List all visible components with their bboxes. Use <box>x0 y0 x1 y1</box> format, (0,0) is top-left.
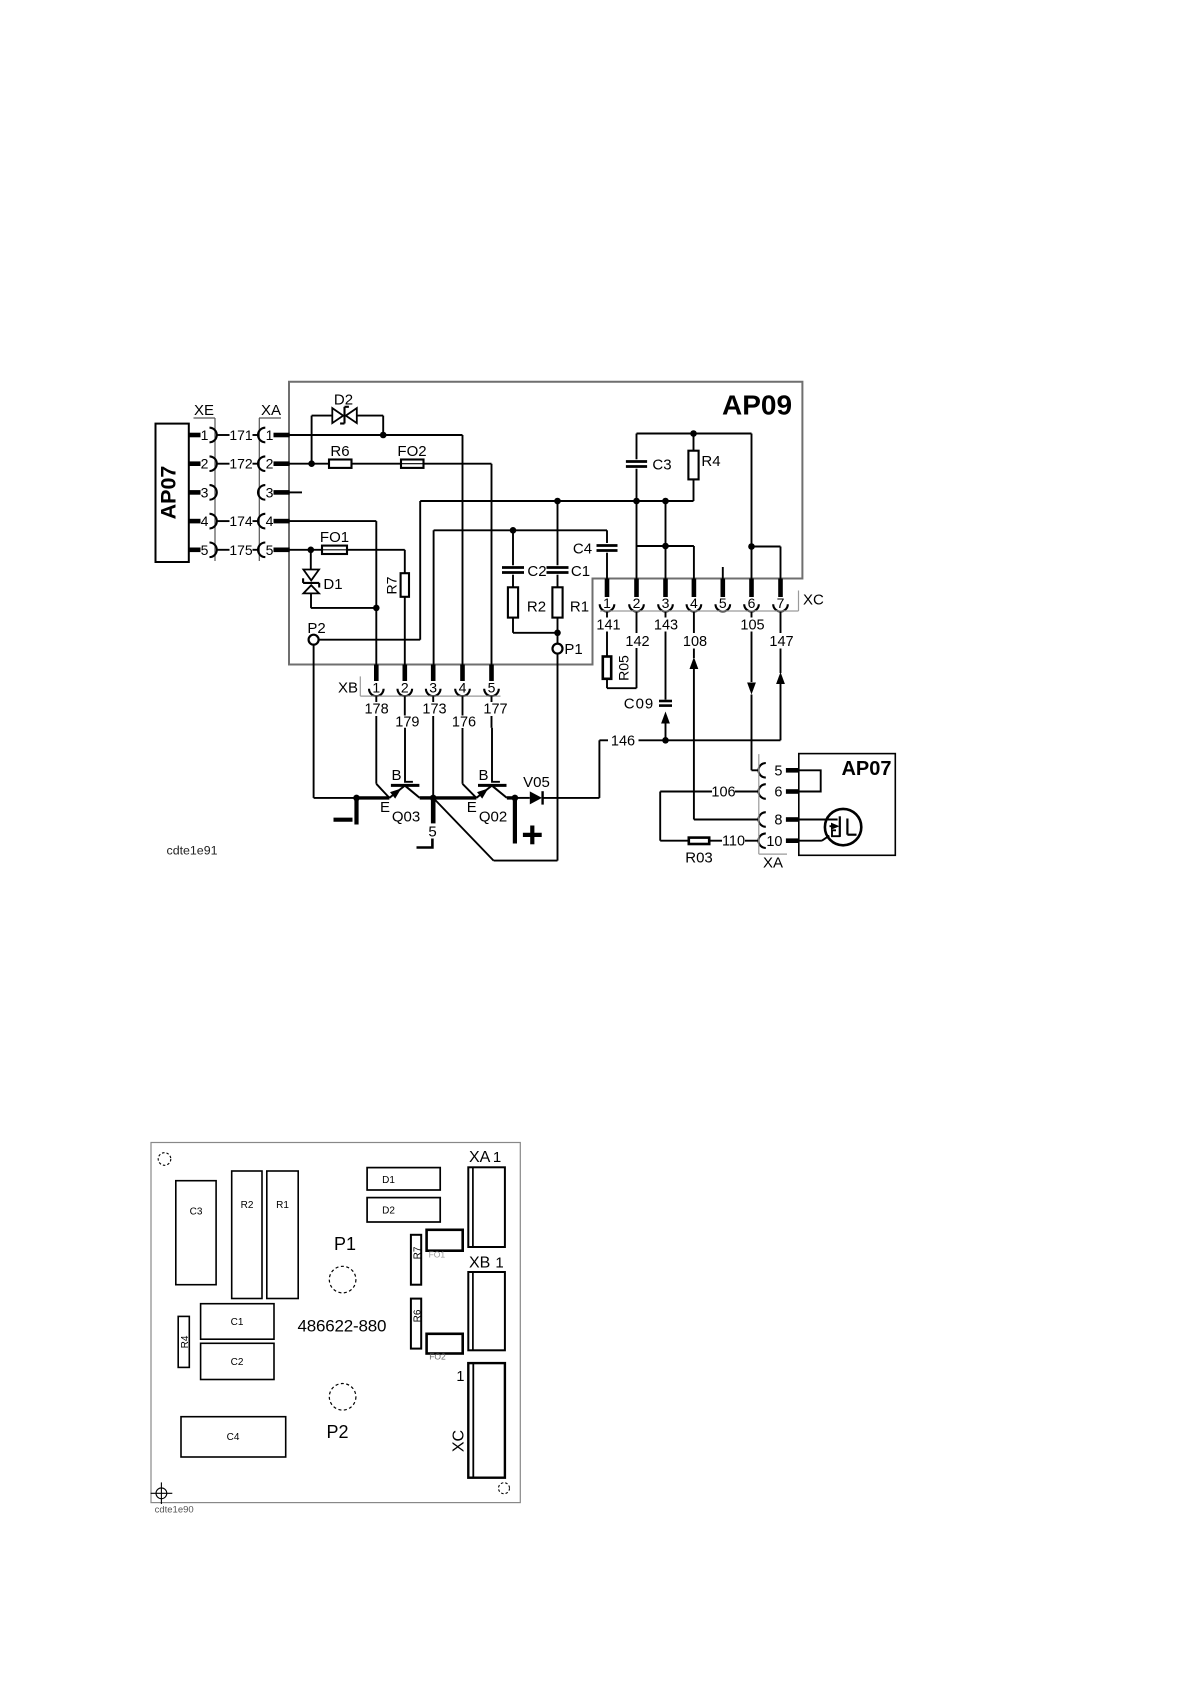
svg-text:XC: XC <box>803 592 824 609</box>
svg-text:AP07: AP07 <box>841 758 891 780</box>
svg-text:D1: D1 <box>382 1175 395 1186</box>
svg-text:C09: C09 <box>624 696 655 713</box>
svg-text:R1: R1 <box>570 599 589 616</box>
svg-text:XA: XA <box>261 402 281 419</box>
svg-text:8: 8 <box>774 813 782 829</box>
svg-text:141: 141 <box>596 618 620 634</box>
svg-text:3: 3 <box>266 484 274 500</box>
svg-text:1: 1 <box>603 595 611 611</box>
svg-text:FO1: FO1 <box>429 1250 446 1260</box>
svg-text:2: 2 <box>633 595 641 611</box>
svg-text:XE: XE <box>194 402 214 419</box>
svg-text:2: 2 <box>266 456 274 472</box>
svg-text:172: 172 <box>229 456 253 472</box>
svg-text:4: 4 <box>266 513 274 529</box>
svg-text:D2: D2 <box>334 392 353 409</box>
svg-text:5: 5 <box>201 542 209 558</box>
svg-text:cdte1e90: cdte1e90 <box>155 1505 194 1516</box>
svg-text:R7: R7 <box>384 576 400 594</box>
svg-text:C3: C3 <box>190 1207 203 1218</box>
svg-text:4: 4 <box>459 680 467 696</box>
svg-text:V05: V05 <box>523 774 550 791</box>
svg-text:C2: C2 <box>527 563 546 580</box>
svg-text:175: 175 <box>229 542 253 558</box>
svg-text:C1: C1 <box>571 563 590 580</box>
svg-text:C4: C4 <box>227 1432 240 1443</box>
svg-text:1: 1 <box>266 427 274 443</box>
svg-text:AP07: AP07 <box>157 466 181 520</box>
svg-text:106: 106 <box>711 785 735 801</box>
svg-text:3: 3 <box>429 680 437 696</box>
svg-text:1: 1 <box>495 1255 503 1272</box>
svg-text:176: 176 <box>452 715 476 731</box>
svg-text:P2: P2 <box>326 1422 348 1442</box>
svg-text:P1: P1 <box>334 1234 356 1254</box>
svg-text:6: 6 <box>774 785 782 801</box>
svg-text:3: 3 <box>662 595 670 611</box>
svg-text:5: 5 <box>774 764 782 780</box>
svg-text:5: 5 <box>266 542 274 558</box>
svg-text:E: E <box>467 799 477 816</box>
svg-text:D1: D1 <box>323 576 342 593</box>
svg-text:173: 173 <box>422 702 446 718</box>
svg-text:B: B <box>478 767 488 784</box>
svg-text:FO1: FO1 <box>320 529 349 546</box>
svg-text:R05: R05 <box>616 655 632 681</box>
svg-text:1: 1 <box>201 427 209 443</box>
svg-text:cdte1e91: cdte1e91 <box>167 844 218 858</box>
svg-text:R03: R03 <box>685 850 713 867</box>
svg-text:171: 171 <box>229 427 253 443</box>
svg-text:Q03: Q03 <box>392 809 420 826</box>
svg-text:R4: R4 <box>180 1335 191 1348</box>
svg-text:E: E <box>380 799 390 816</box>
svg-text:105: 105 <box>740 618 764 634</box>
svg-text:C3: C3 <box>652 457 671 474</box>
svg-text:2: 2 <box>401 680 409 696</box>
svg-text:C2: C2 <box>231 1357 244 1368</box>
svg-text:1: 1 <box>493 1149 501 1166</box>
svg-text:146: 146 <box>611 733 635 749</box>
svg-text:108: 108 <box>683 634 707 650</box>
svg-text:110: 110 <box>722 834 745 850</box>
svg-text:3: 3 <box>201 484 209 500</box>
svg-text:143: 143 <box>654 618 678 634</box>
svg-text:5: 5 <box>428 823 436 840</box>
svg-text:R2: R2 <box>241 1200 254 1211</box>
svg-text:C4: C4 <box>573 541 592 558</box>
svg-text:C1: C1 <box>231 1317 244 1328</box>
svg-text:P1: P1 <box>564 641 582 658</box>
svg-text:5: 5 <box>488 680 496 696</box>
svg-text:R2: R2 <box>527 599 546 616</box>
svg-text:178: 178 <box>364 702 388 718</box>
svg-text:XA: XA <box>763 855 783 872</box>
svg-text:XA: XA <box>469 1149 491 1166</box>
svg-text:FO2: FO2 <box>429 1352 446 1362</box>
svg-text:6: 6 <box>748 595 756 611</box>
svg-text:R7: R7 <box>413 1246 424 1259</box>
svg-text:R6: R6 <box>413 1309 424 1322</box>
svg-text:D2: D2 <box>382 1206 395 1217</box>
svg-text:XB: XB <box>469 1255 490 1272</box>
svg-text:XB: XB <box>338 680 358 697</box>
svg-text:AP09: AP09 <box>722 390 792 421</box>
svg-text:B: B <box>391 767 401 784</box>
svg-text:R6: R6 <box>330 443 349 460</box>
svg-text:FO2: FO2 <box>397 443 426 460</box>
svg-text:1: 1 <box>456 1369 464 1385</box>
svg-text:179: 179 <box>395 715 419 731</box>
svg-text:174: 174 <box>229 513 253 529</box>
svg-text:XC: XC <box>451 1430 468 1452</box>
svg-text:10: 10 <box>766 834 782 850</box>
svg-text:177: 177 <box>483 702 507 718</box>
svg-text:1: 1 <box>372 680 380 696</box>
svg-text:5: 5 <box>719 595 727 611</box>
svg-text:R4: R4 <box>701 453 720 470</box>
svg-text:147: 147 <box>769 634 793 650</box>
svg-text:4: 4 <box>201 513 209 529</box>
svg-text:Q02: Q02 <box>479 809 507 826</box>
svg-text:7: 7 <box>777 595 785 611</box>
svg-text:2: 2 <box>201 456 209 472</box>
svg-text:R1: R1 <box>276 1200 289 1211</box>
svg-text:4: 4 <box>690 595 698 611</box>
svg-text:142: 142 <box>625 634 649 650</box>
svg-text:486622-880: 486622-880 <box>298 1317 387 1336</box>
